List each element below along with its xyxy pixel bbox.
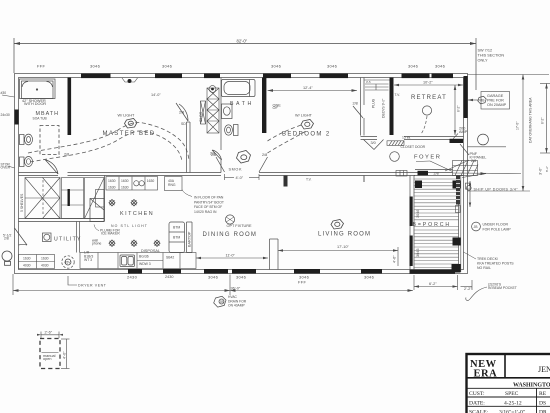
svg-text:3046: 3046: [327, 64, 338, 69]
optional tub dashed: [40, 126, 59, 155]
dim line 8'-2" inner: [454, 85, 456, 135]
pantry cabinet: [169, 222, 185, 253]
top wall window 3046 #5: [402, 74, 430, 79]
svg-text:CLOSET DOOR: CLOSET DOOR: [401, 145, 426, 149]
svg-text:15 l/a: 15 l/a: [402, 136, 410, 140]
overall top dimension line 82'-0": [14, 38, 476, 90]
svg-text:2/8: 2/8: [434, 172, 439, 176]
bedroom2 closet door swing: [353, 106, 363, 118]
top wall window 3046 #6: [432, 74, 454, 79]
tv wall stub: [284, 176, 288, 187]
hall between bath and bedroom2: [211, 151, 268, 181]
ceiling break dashed curve upper: [28, 122, 189, 160]
garage slab edge line: [468, 146, 507, 148]
title block outer border: [467, 354, 550, 413]
walk-in closet: [199, 88, 219, 133]
box right dim 4'-0": [61, 339, 70, 369]
svg-text:11'-0": 11'-0": [226, 254, 236, 258]
svg-text:3046: 3046: [236, 275, 247, 280]
svg-text:IN BEAM POCKET: IN BEAM POCKET: [488, 286, 517, 290]
svg-text:SD: SD: [181, 122, 186, 126]
svg-text:3046: 3046: [162, 64, 173, 69]
corridor / room-divider long wall: [19, 170, 453, 176]
svg-text:DATE:: DATE:: [469, 400, 485, 406]
band bottom wall: [19, 176, 105, 222]
svg-text:4030: 4030: [23, 264, 31, 268]
retreat room: [361, 81, 464, 150]
bathtub: [222, 80, 256, 97]
hanging rod 1: [207, 88, 219, 133]
bottom wall window 3046 #1: [204, 269, 228, 274]
utility cabinets: [19, 255, 55, 269]
hall door V left 2/8: [216, 157, 225, 172]
svg-text:FFF: FFF: [37, 64, 45, 69]
utility/kitchen divider wall: [77, 222, 80, 253]
svg-text:DAT OVERHANG THIS AREA: DAT OVERHANG THIS AREA: [529, 97, 533, 143]
porch: [410, 161, 519, 301]
svg-text:FOR POLE LAMP: FOR POLE LAMP: [483, 227, 512, 231]
sliding door slab: [456, 176, 460, 205]
svg-text:17'-10": 17'-10": [337, 245, 349, 249]
svg-text:RE: RE: [539, 391, 547, 397]
svg-text:LIVING ROOM: LIVING ROOM: [318, 232, 371, 238]
svg-text:#30: #30: [1, 91, 7, 95]
svg-text:DS: DS: [539, 400, 546, 406]
svg-text:SOA TUB: SOA TUB: [33, 117, 48, 121]
porch bottom edge black bar: [410, 270, 456, 274]
svg-text:IN FLOOR OF PAN: IN FLOOR OF PAN: [194, 196, 224, 200]
bath door 2/8: [212, 150, 222, 160]
svg-text:FFF: FFF: [298, 280, 306, 285]
exhaust fan symbol top wall (closet): [209, 86, 216, 93]
shear wall bedroom2/retreat: [390, 78, 394, 136]
svg-text:2/8: 2/8: [262, 153, 267, 157]
svg-text:CUST:: CUST:: [469, 391, 485, 397]
svg-text:RETREAT: RETREAT: [411, 95, 447, 101]
shower stall: [20, 79, 56, 99]
wardrobe section 2: [62, 178, 84, 219]
mbath toilet: [20, 134, 33, 145]
trek deck leader: [464, 252, 477, 259]
foyer-living stub: [363, 176, 365, 183]
pnf leader lines: [445, 144, 469, 171]
left wall egress window: [15, 110, 19, 125]
dining width dim: [196, 257, 268, 260]
svg-text:BG/36: BG/36: [139, 255, 149, 259]
svg-text:3046: 3046: [435, 64, 446, 69]
utility fan box: [43, 233, 52, 242]
master door swing: [176, 103, 188, 121]
bartop wall: [187, 222, 193, 253]
svg-text:1630: 1630: [147, 179, 155, 183]
bedroom2 dim 12'-4": [268, 89, 358, 92]
foyer: [390, 127, 521, 178]
svg-text:2/8: 2/8: [353, 102, 358, 106]
bottom wall window 3046 #3: [294, 269, 320, 274]
shear wall mbath/master: [68, 78, 72, 136]
dryer vent leader: [68, 276, 77, 285]
svg-text:6'-2": 6'-2": [429, 282, 437, 286]
svg-text:8'-2": 8'-2": [541, 117, 545, 124]
svg-text:3'-5: 3'-5: [366, 80, 371, 84]
retreat dim 10'-2": [394, 84, 463, 87]
bottom wall door segment: [163, 269, 181, 274]
porch post TR: [453, 181, 461, 189]
svg-text:PLUG: PLUG: [372, 98, 376, 108]
svg-text:1630: 1630: [108, 179, 116, 183]
dim line far right: [546, 84, 548, 154]
svg-text:WASHINGTON: WASHINGTON: [513, 383, 550, 389]
marriage wall opening dashed box: [37, 331, 70, 369]
svg-text:82'-0": 82'-0": [237, 39, 248, 44]
svg-text:SMOK: SMOK: [229, 168, 243, 172]
hvac note text: [228, 295, 247, 308]
svg-text:T.V.: T.V.: [306, 178, 312, 182]
shear wall bath/bedroom2: [262, 78, 266, 134]
svg-text:UTILITY: UTILITY: [54, 237, 82, 243]
svg-text:KITCHEN: KITCHEN: [120, 211, 154, 217]
beam pocket leader curve: [466, 287, 487, 300]
svg-text:1630: 1630: [41, 257, 49, 261]
svg-text:3046: 3046: [90, 64, 101, 69]
svg-text:8'-2": 8'-2": [457, 105, 461, 112]
kitchen top cabinets: [106, 177, 158, 191]
svg-text:THIS SECTION: THIS SECTION: [478, 54, 505, 58]
retreat dashed wisp: [421, 116, 427, 134]
svg-text:ON 40AMP: ON 40AMP: [228, 304, 245, 308]
svg-text:2'-6": 2'-6": [45, 331, 53, 335]
svg-text:14'-0": 14'-0": [151, 93, 161, 97]
porch window vertical bar 2: [410, 236, 413, 267]
svg-text:4'-0": 4'-0": [62, 351, 66, 359]
svg-text:PRE FOR: PRE FOR: [487, 98, 504, 102]
bedroom2 light hexagon: [301, 120, 314, 130]
hall door V right 2/8: [259, 157, 268, 172]
svg-text:NO RAIL: NO RAIL: [477, 266, 491, 270]
svg-text:2/8: 2/8: [179, 111, 184, 115]
porch top edge: [414, 175, 464, 177]
kitchen sink: [120, 255, 135, 267]
door-side vertical dim: [469, 181, 471, 207]
svg-text:UNDER FLOOR: UNDER FLOOR: [483, 223, 509, 227]
hall width dim 4'-0": [225, 174, 260, 180]
svg-text:T.V.: T.V.: [395, 93, 401, 97]
svg-text:3/16"=1'-0": 3/16"=1'-0": [499, 409, 525, 413]
living light hexagon: [331, 220, 344, 230]
svg-text:1630: 1630: [108, 185, 116, 189]
entry steps hatched: [453, 161, 479, 176]
svg-text:BATH: BATH: [230, 101, 254, 107]
porch post TL: [415, 181, 422, 189]
svg-text:FOYER: FOYER: [414, 155, 441, 161]
dim line 17'-0": [522, 75, 524, 192]
svg-text:W/ LIGHT: W/ LIGHT: [295, 114, 313, 118]
svg-text:5 SHELVES: 5 SHELVES: [20, 193, 24, 212]
svg-text:2430: 2430: [165, 275, 173, 279]
bedroom2 right wall: [361, 78, 365, 136]
svg-text:BEDROOM 2: BEDROOM 2: [282, 132, 331, 138]
hall door 3/0 arcs: [364, 140, 384, 150]
smoke detector hexagon: [237, 151, 251, 164]
svg-text:DRYER VENT: DRYER VENT: [78, 284, 107, 288]
living room: [270, 176, 421, 270]
porch bottom dim 6'-2": [414, 275, 458, 290]
box top dim 2'-6": [37, 332, 63, 339]
extension ticks: [468, 74, 550, 76]
sw 7/12 note: [478, 49, 505, 63]
bath toilet: [225, 125, 238, 136]
pantry note leader: [182, 190, 192, 197]
svg-text:TREK DECK/: TREK DECK/: [477, 257, 498, 261]
bottom wall window 3046 #4: [361, 269, 382, 274]
svg-text:2'-2": 2'-2": [464, 287, 472, 291]
porch inner right edge: [458, 176, 460, 273]
half wall dining/living: [270, 239, 279, 270]
svg-text:3/0: 3/0: [371, 141, 376, 145]
under floor pole lamp note: [472, 222, 512, 231]
svg-text:4030: 4030: [41, 264, 49, 268]
master ceiling light hexagon: [125, 119, 138, 129]
svg-text:36'-0": 36'-0": [231, 287, 241, 291]
exterior faucet circle: [2, 251, 12, 265]
foyer window black bar: [418, 171, 429, 176]
svg-text:8'-2": 8'-2": [545, 166, 549, 172]
bottom dimension line 36'-0": [13, 274, 413, 295]
dashed rod line: [42, 180, 44, 216]
svg-text:DR: DR: [539, 409, 547, 413]
svg-text:24x30: 24x30: [1, 113, 10, 117]
porch post BR: [452, 264, 461, 273]
garage pre-wire note: [468, 92, 510, 110]
svg-text:BTM: BTM: [173, 236, 180, 240]
svg-text:W/ LIGHT: W/ LIGHT: [118, 114, 136, 118]
svg-text:2/8: 2/8: [211, 153, 216, 157]
fridge: [90, 199, 104, 222]
svg-text:SCALE:: SCALE:: [469, 409, 489, 413]
right wall door black segment: [464, 76, 468, 118]
right side dimension assembly: [454, 75, 550, 192]
svg-text:BTM: BTM: [173, 226, 180, 230]
svg-text:2430: 2430: [127, 275, 138, 280]
hvac note hexagon: [214, 296, 226, 307]
svg-text:ERA: ERA: [474, 369, 498, 380]
svg-text:GARAGE: GARAGE: [487, 94, 504, 98]
living width dim 17'-10": [278, 247, 398, 266]
wardrobe X section 1: [25, 178, 60, 219]
svg-text:KKA TREATED POSTS: KKA TREATED POSTS: [477, 262, 514, 266]
svg-text:4'-6": 4'-6": [393, 255, 397, 263]
svg-text:45V: 45V: [65, 261, 72, 265]
svg-text:3'-0": 3'-0": [539, 167, 543, 175]
svg-text:FACE OF BTM OF: FACE OF BTM OF: [194, 205, 222, 209]
svg-text:OF: OF: [273, 106, 279, 110]
svg-text:2/8: 2/8: [4, 237, 9, 241]
foyer threshold cabinet cells: [396, 171, 407, 177]
svg-text:12'-4": 12'-4": [303, 86, 313, 90]
bottom wall window labels: [127, 275, 375, 285]
svg-text:WDW 3: WDW 3: [139, 262, 151, 266]
mbath pedestal sink: [20, 157, 33, 167]
building outer wall: [15, 74, 468, 274]
post box right of door: [465, 183, 470, 189]
porch post MR: [453, 238, 461, 246]
top wall window small (bath): [204, 74, 220, 79]
svg-text:3046: 3046: [408, 64, 419, 69]
svg-text:DECVS 9'-0": DECVS 9'-0": [382, 98, 386, 118]
pocket door hatched slab: [387, 141, 404, 146]
svg-text:17'-0": 17'-0": [516, 121, 520, 130]
closet band below mbath: [19, 176, 105, 222]
svg-text:WITH DOOR: WITH DOOR: [24, 102, 46, 106]
svg-text:WT 3: WT 3: [84, 258, 92, 262]
svg-text:4'-0": 4'-0": [236, 176, 244, 180]
water heater: [62, 256, 74, 268]
svg-text:DINING ROOM: DINING ROOM: [203, 232, 258, 238]
porch window vertical bar 1: [410, 197, 413, 227]
foyer door V lines to ship doors note: [416, 161, 521, 178]
bath left wall: [220, 78, 222, 173]
master right wall: [187, 122, 191, 173]
attic access symbol top wall: [122, 78, 138, 83]
svg-text:open: open: [43, 357, 51, 361]
svg-text:SHIP UP DOORS 3/4": SHIP UP DOORS 3/4": [474, 188, 519, 192]
svg-text:OPT FIXTURE: OPT FIXTURE: [227, 224, 253, 228]
svg-text:phone: phone: [92, 242, 102, 246]
porch deck board hatching: [414, 179, 459, 267]
closet between bedroom2 and retreat: [364, 80, 390, 90]
MBATH room: [1, 79, 70, 174]
kitchen: [77, 177, 197, 279]
svg-text:RNG: RNG: [168, 183, 176, 187]
svg-text:ON 20AMP: ON 20AMP: [487, 103, 507, 107]
kitchen base cabinets: [80, 253, 196, 269]
utility entry door: [15, 228, 28, 245]
bath (center): [210, 78, 255, 173]
svg-text:3046: 3046: [208, 275, 219, 280]
svg-text:3046: 3046: [416, 210, 420, 218]
box below sliding door: [456, 206, 461, 213]
svg-text:3046: 3046: [271, 64, 282, 69]
top wall window 3046 #4: [320, 74, 349, 79]
top wall window labels: [37, 64, 446, 69]
dining room: [182, 190, 268, 260]
bedroom2 ceiling dashed curves: [268, 125, 304, 142]
bottom wall window 2430: [128, 269, 142, 274]
panel leader: [453, 134, 458, 139]
svg-text:SB42: SB42: [166, 256, 174, 260]
svg-text:3046: 3046: [364, 275, 375, 280]
porch light circle outside right wall: [478, 134, 489, 145]
retreat bottom wall: [361, 137, 464, 140]
svg-text:BARTOP: BARTOP: [188, 231, 192, 247]
svg-text:SW 7/12: SW 7/12: [478, 49, 493, 53]
building inner wall line: [19, 78, 464, 270]
living east wall (porch side): [410, 176, 414, 270]
mbath door 2/8: [45, 160, 58, 175]
title block: [467, 354, 550, 413]
left edge tick marks: [2, 95, 15, 168]
ship up doors note: [466, 186, 471, 191]
svg-text:1630: 1630: [121, 185, 129, 189]
vanity sink: [222, 104, 233, 119]
utility room: [2, 228, 90, 269]
ceiling break dashed curve lower: [30, 131, 182, 162]
svg-text:PANTRY/14" BOOT: PANTRY/14" BOOT: [194, 200, 224, 204]
svg-text:1630: 1630: [121, 179, 129, 183]
svg-text:NO STL LIGHT: NO STL LIGHT: [111, 224, 148, 228]
master bed room: [28, 93, 190, 173]
svg-text:14X20 RAG IN: 14X20 RAG IN: [194, 210, 217, 214]
top wall window 3046 #2: [155, 74, 182, 79]
new era cell border: [467, 354, 550, 378]
trek deck note: [477, 257, 514, 270]
dining fixture symbol: [225, 215, 234, 224]
pantry note block: [194, 196, 224, 214]
svg-text:1630: 1630: [23, 257, 31, 261]
retreat ceiling fan circle: [422, 106, 431, 115]
svg-text:4-25-12: 4-25-12: [504, 400, 522, 406]
svg-text:ICE MAKER: ICE MAKER: [101, 232, 120, 236]
top wall window 3046 #3: [263, 74, 291, 79]
floor registers: [109, 200, 160, 247]
electric panel black bar: [450, 139, 464, 143]
svg-text:B=PORCH: B=PORCH: [413, 222, 452, 228]
svg-text:10'-2": 10'-2": [423, 81, 433, 85]
svg-text:3046: 3046: [416, 249, 420, 257]
svg-text:SPEC: SPEC: [505, 391, 519, 397]
svg-text:ONLY: ONLY: [478, 59, 489, 63]
bedroom 2: [268, 78, 365, 154]
section2 rod black bar: [68, 189, 70, 206]
range box 40A: [165, 177, 183, 191]
svg-text:AMP: AMP: [459, 130, 468, 134]
bottom wall window 3046 #2: [232, 269, 256, 274]
coat closet section 3: [85, 178, 105, 219]
top wall window 3046 #1: [81, 74, 111, 79]
foyer ceiling light: [390, 152, 400, 162]
hanging rod 2: [201, 101, 206, 124]
svg-text:JEN: JEN: [538, 365, 550, 374]
